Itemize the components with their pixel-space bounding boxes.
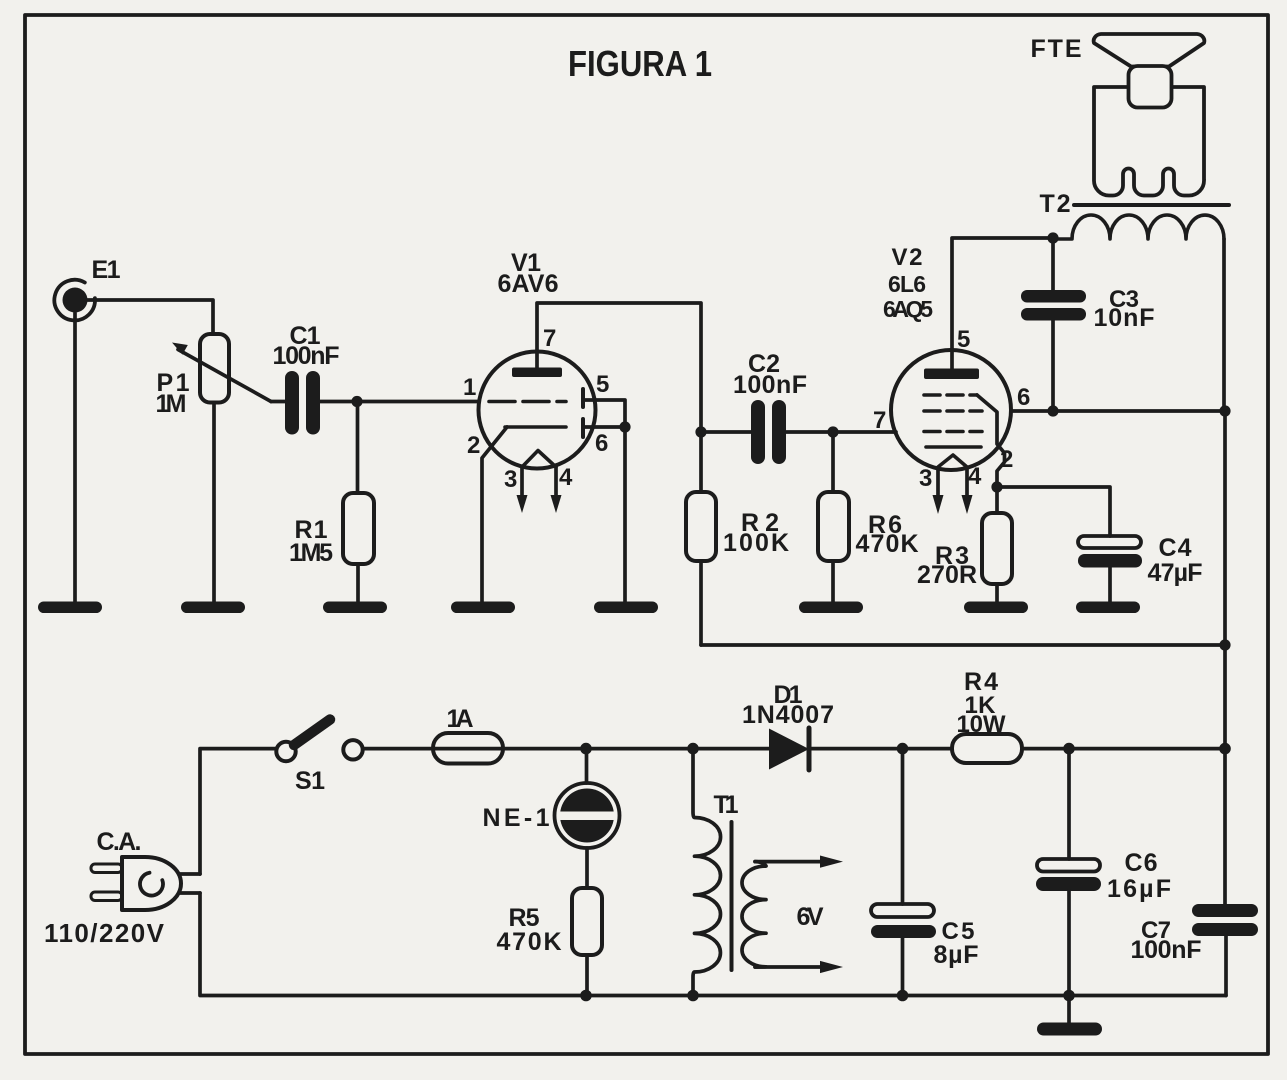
wire R6 to ground [831,561,835,603]
wire left riser to S1 [200,749,276,874]
V1 pin 6 tick [581,419,585,437]
V2 screen grid dashed line [924,393,977,397]
wire C2 to node R6 [786,430,833,434]
wire C6 to bottom bus [1067,891,1071,996]
wire C4 to ground [1108,568,1112,604]
wire R1 to ground [356,564,360,603]
node T2 primary left / C3 [1047,232,1058,243]
svg-text:FTE: FTE [1031,35,1082,63]
svg-text:3: 3 [504,466,517,493]
node NE-1 branch [580,743,592,755]
wire C6 node to ground [1067,996,1071,1024]
svg-text:6V: 6V [797,903,824,931]
svg-text:6AQ5: 6AQ5 [883,296,933,322]
ground (power common) [1037,1023,1102,1036]
svg-text:V2: V2 [892,244,923,271]
wire node to C3 [1051,238,1055,290]
wire fuse to D1 [503,747,769,751]
wire T2 right end down right rail [1222,239,1226,411]
svg-text:1A: 1A [447,705,474,733]
speaker body with winding feet [1094,87,1204,196]
svg-text:16µF: 16µF [1107,875,1171,903]
capacitor C3 [1021,286,1155,332]
wire right rail to C7 [1223,749,1227,904]
V2 filament [938,455,967,467]
capacitor C4 electrolytic [1078,534,1203,587]
node C1/R1 junction [351,396,362,407]
svg-text:4: 4 [559,464,573,491]
T1 core line [730,822,734,970]
wire C5 to bottom bus [901,938,905,996]
svg-text:8µF: 8µF [934,941,979,969]
wire P1 to ground [212,403,216,604]
wire node to R6 [831,432,835,492]
diode D1 1N4007 [742,681,834,770]
svg-text:1: 1 [463,374,476,401]
T1 secondary top lead with arrow [755,860,822,864]
wire plug upper terminal [179,872,200,876]
svg-text:470K: 470K [856,530,919,558]
wire R2 bottom to B+ rail [699,561,703,645]
svg-text:C4: C4 [1159,534,1192,562]
node right rail pin6 [1219,405,1230,416]
svg-text:4: 4 [968,463,982,490]
V1 pin 5 tick [581,389,585,407]
svg-text:47µF: 47µF [1148,559,1203,587]
svg-text:6: 6 [1017,384,1030,411]
node C2 right / R6 / V2 grid [827,426,838,437]
wire plug lower terminal [179,891,200,895]
wire R3 to ground [995,584,999,603]
ground (C4) [1076,602,1140,614]
capacitor C5 electrolytic [871,904,979,969]
neon lamp NE-1 [483,783,620,848]
T2 core line [1074,203,1229,207]
svg-text:S1: S1 [295,767,325,795]
plug C glyph [140,873,163,896]
node T1 top [687,743,699,755]
V2 cathode line [926,445,981,449]
svg-text:T2: T2 [1040,190,1071,218]
node C2 left / R2 / V1 plate [695,426,706,437]
svg-text:100nF: 100nF [733,371,807,399]
wire node to NE-1 [585,749,589,783]
wire V1 pin 2 to ground [482,427,507,603]
wire node to C2 [701,430,752,434]
V2 control grid dashed line [924,430,982,434]
plug prong upper [91,864,122,873]
capacitor C6 electrolytic [1036,849,1171,903]
wire node to V2 pin 7 [833,430,896,434]
T1 secondary winding [742,862,766,967]
V1 plate bar [512,368,562,378]
potentiometer P1 [156,334,272,418]
resistor R2 [686,492,789,561]
wire node to C5 [901,749,905,904]
wire R5 to bottom bus [585,955,589,996]
tube V2 6L6 / 6AQ5 [873,244,1030,514]
tube V1 6AV6 [463,249,609,513]
wire C7 to bottom bus [1224,936,1228,996]
capacitor C7 [1131,904,1259,964]
svg-text:6: 6 [595,430,608,457]
transformer T1 [693,749,843,996]
wire V2 pin 5 plate up to T2 [952,238,1053,369]
svg-text:T1: T1 [714,791,739,819]
node R5 bottom bus [580,990,592,1002]
node C5 bottom bus [897,990,909,1002]
svg-text:5: 5 [596,371,609,398]
wire node to C6 [1067,749,1071,859]
speaker FTE [1031,34,1205,196]
svg-text:E1: E1 [92,256,121,284]
V1 filament [522,451,556,468]
ground (P1) [181,602,245,614]
svg-text:FIGURA 1: FIGURA 1 [568,43,712,84]
resistor R4 [952,668,1022,763]
wire node to C4 [997,487,1110,536]
T1 secondary bottom lead with arrow [755,965,822,969]
node V1 pin6 [619,421,630,432]
T1 primary winding [693,749,721,996]
wire E1 to P1 top [87,300,213,334]
node C5 branch [897,743,909,755]
wire E1 to ground [73,313,77,603]
svg-text:270R: 270R [917,561,977,589]
wire node to R1 [356,402,360,494]
resistor R5 [497,888,603,956]
node C6 bottom bus [1063,990,1075,1002]
node T1 bottom bus [687,990,699,1002]
fuse 1A [433,705,503,764]
svg-text:100nF: 100nF [1131,936,1202,964]
ground (E1) [38,602,102,614]
wire V1 pin6 to ground [623,427,627,603]
wire V2 pin 6 to right rail [1011,409,1225,413]
switch S1 [276,720,362,796]
V2 grid2 dashed line [924,409,982,413]
wire NE-1 to R5 [585,848,589,888]
T2 primary winding [1053,215,1224,239]
svg-text:470K: 470K [497,928,562,956]
node V2 cathode / R3 / C4 [991,481,1002,492]
speaker cone [1094,34,1205,67]
svg-text:6AV6: 6AV6 [498,270,559,298]
AC plug C.A. [44,828,181,948]
ground (R6) [799,602,863,614]
ground (R3) [964,602,1028,614]
svg-text:100nF: 100nF [273,342,340,370]
ground (V1 diode plates) [594,602,658,614]
node right rail bus corner [1219,743,1231,755]
svg-text:1N4007: 1N4007 [742,701,834,729]
resistor R3 [917,513,1012,589]
svg-text:5: 5 [957,326,970,353]
svg-text:C.A.: C.A. [97,828,142,856]
V2 plate bar [924,369,979,380]
svg-text:NE-1: NE-1 [483,804,550,832]
wire D1 to R4 [809,747,952,751]
V1 cathode line [505,425,566,429]
input jack E1 [54,280,95,321]
plug prong lower [91,892,122,901]
wire V1 pin 5 to pin 6 [585,400,625,427]
wire right rail pin6 to B+ [1223,411,1227,645]
svg-text:10nF: 10nF [1094,304,1155,332]
wire wiper to C1 [271,400,286,404]
svg-text:3: 3 [919,465,932,492]
svg-text:7: 7 [873,407,886,434]
speaker magnet [1129,66,1172,108]
resistor R1 [289,493,374,567]
svg-text:1M5: 1M5 [289,539,333,567]
wire B+ rail horizontal [701,643,1225,647]
capacitor C2 [733,350,807,464]
wire left drop to bottom bus [200,893,1226,996]
svg-text:2: 2 [467,432,480,459]
V1 grid dashed line [489,400,566,404]
svg-text:1M: 1M [156,390,187,418]
capacitor C1 [273,322,340,435]
wire node to R3 [995,487,999,513]
svg-text:2: 2 [1000,446,1013,473]
transformer T2 [1040,190,1230,239]
node C3 bottom [1047,405,1058,416]
ground (R1) [323,602,387,614]
svg-text:6L6: 6L6 [888,271,926,297]
svg-text:100K: 100K [723,529,789,557]
wire R4 to right rail [1022,747,1225,751]
ground (V1 cathode) [451,602,515,614]
wire C1 to V1 pin 1 [320,400,479,404]
svg-text:C6: C6 [1125,849,1158,877]
svg-text:7: 7 [543,325,556,352]
node B+ rail right [1219,639,1230,650]
wire R2 top [699,432,703,492]
resistor R6 [818,492,919,561]
svg-text:10W: 10W [957,711,1006,738]
wire S1 to fuse [363,747,433,751]
wire V1 pin 7 plate to node R2/C2 [537,303,701,432]
wire right rail B+ down to bus [1223,645,1227,749]
node C6 branch [1063,743,1075,755]
svg-text:110/220V: 110/220V [44,918,165,948]
V2 beam plate to pin 2 line [977,395,1005,487]
wire C3 to pin6 rail [1051,321,1055,412]
